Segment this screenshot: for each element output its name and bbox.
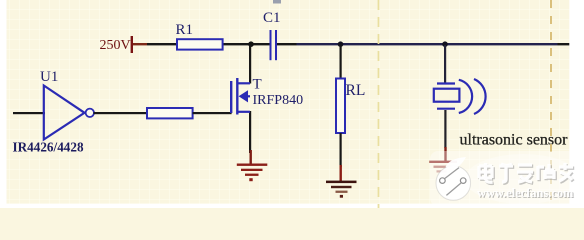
wire drain up to bus	[249, 45, 251, 84]
bulk stub	[246, 95, 250, 97]
page white margin right	[569, 0, 584, 208]
vertical dashed divider (olive)	[378, 0, 380, 208]
sound arc 1	[459, 80, 472, 113]
resistor R1	[177, 39, 223, 49]
crystal body	[434, 89, 460, 102]
wire input	[13, 112, 45, 114]
logo circle	[436, 166, 471, 201]
wire source down	[249, 111, 251, 153]
wire main bus left (black)	[147, 43, 270, 45]
svg-text:IRFP840: IRFP840	[253, 93, 304, 108]
vertical dashed divider (tan)	[550, 0, 552, 208]
top plate	[437, 82, 455, 84]
svg-text:IR4426/4428: IR4426/4428	[13, 140, 84, 155]
capacitor C1	[271, 30, 277, 60]
node junction drain	[248, 41, 254, 47]
power port 250V	[131, 36, 133, 53]
grey handle square top	[273, 0, 281, 4]
wire bus to RL	[340, 45, 342, 79]
sound arc 2	[474, 79, 486, 114]
svg-text:RL: RL	[346, 82, 366, 99]
node junction sensor	[442, 41, 448, 47]
wire red stub from port	[133, 43, 147, 45]
wire U1 output to gate resistor	[94, 112, 148, 114]
arrow of mosfet	[239, 90, 248, 102]
wire RL to ground	[340, 133, 342, 167]
inverter U1 (IR4426/4428 driver)	[13, 69, 95, 155]
channel bar	[236, 78, 238, 115]
wire bus down to sensor	[444, 45, 446, 83]
transistor T (IRFP840 MOSFET)	[231, 45, 303, 153]
svg-text:250V: 250V	[100, 38, 131, 53]
svg-text:T: T	[253, 77, 262, 93]
page white margin left	[0, 0, 7, 208]
gate bar	[230, 81, 232, 113]
svg-text:U1: U1	[40, 69, 58, 85]
page white margin bottom	[0, 204, 584, 208]
resistor gate (unlabelled)	[147, 108, 193, 118]
wire between C1 and transition	[277, 43, 297, 45]
drain stub	[237, 82, 250, 84]
svg-text:www.elecfans.com: www.elecfans.com	[477, 186, 574, 200]
svg-text:R1: R1	[176, 22, 194, 38]
source stub	[237, 111, 250, 113]
ground (RL)	[326, 165, 357, 198]
wire main bus navy	[297, 43, 558, 45]
svg-text:C1: C1	[263, 10, 281, 26]
wire sensor to ground	[444, 110, 446, 148]
node junction RL	[338, 41, 344, 47]
chinese characters 电子发烧友 (stylised strokes)	[480, 164, 574, 183]
ground (mosfet source)	[237, 150, 267, 181]
ultrasonic sensor	[434, 45, 568, 149]
ground (sensor)	[430, 147, 458, 177]
resistor RL	[336, 45, 365, 167]
wire resistor to gate	[193, 112, 232, 114]
watermark overlay	[430, 151, 584, 206]
bottom plate	[437, 108, 455, 110]
wire main bus right tip black	[558, 43, 571, 45]
